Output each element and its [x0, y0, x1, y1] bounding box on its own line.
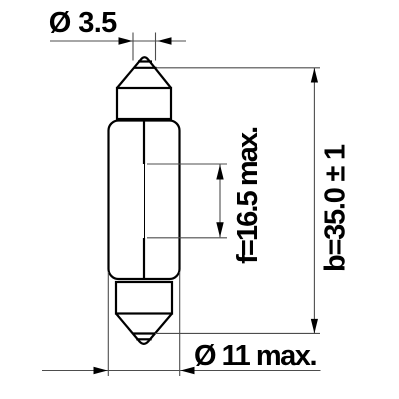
- bulb top tip cone: [117, 57, 171, 88]
- bulb top cap: [117, 88, 171, 119]
- svg-text:b=35.0 ± 1: b=35.0 ± 1: [319, 144, 351, 272]
- dim f down arrow: [216, 222, 223, 237]
- bulb bottom cap: [116, 282, 172, 314]
- filament bottom lead: [143, 238, 145, 278]
- dim Ø3.5 line: [50, 40, 186, 42]
- dim b up arrow: [311, 68, 318, 83]
- bulb top tip cross-line lower: [134, 67, 157, 69]
- dim f up arrow: [216, 165, 223, 180]
- dim b down arrow: [311, 319, 318, 334]
- bulb bottom tip cone: [116, 314, 172, 344]
- dim Ø11 left extension line: [107, 272, 109, 376]
- dim b vertical line: [313, 68, 315, 333]
- dim Ø11 left arrow: [94, 367, 108, 374]
- filament top lead: [143, 121, 145, 165]
- bulb bottom tip cross-line upper: [133, 332, 155, 334]
- dim f top reference line: [147, 163, 227, 165]
- svg-text:Ø 3.5: Ø 3.5: [49, 7, 118, 39]
- bulb top tip cross-line upper: [138, 60, 152, 62]
- dim b top reference line: [157, 67, 321, 69]
- dim f bottom reference line: [147, 237, 227, 239]
- dim Ø11 line: [42, 370, 321, 372]
- bulb bottom tip cross-line lower: [136, 338, 151, 340]
- dim Ø3.5 right arrow: [158, 37, 172, 44]
- dim b bottom reference line: [155, 332, 320, 334]
- dim Ø3.5 right extension line: [155, 33, 157, 61]
- dim Ø11 right extension line: [179, 272, 181, 376]
- dim Ø3.5 left arrow: [119, 37, 133, 44]
- svg-text:Ø 11 max.: Ø 11 max.: [194, 340, 318, 372]
- filament: [144, 164, 146, 238]
- svg-text:f=16.5 max.: f=16.5 max.: [232, 126, 264, 264]
- dim f vertical line: [219, 165, 221, 238]
- dim Ø11 right arrow: [181, 367, 195, 374]
- bulb glass tube: [109, 121, 180, 280]
- dim Ø3.5 left extension line: [132, 33, 134, 61]
